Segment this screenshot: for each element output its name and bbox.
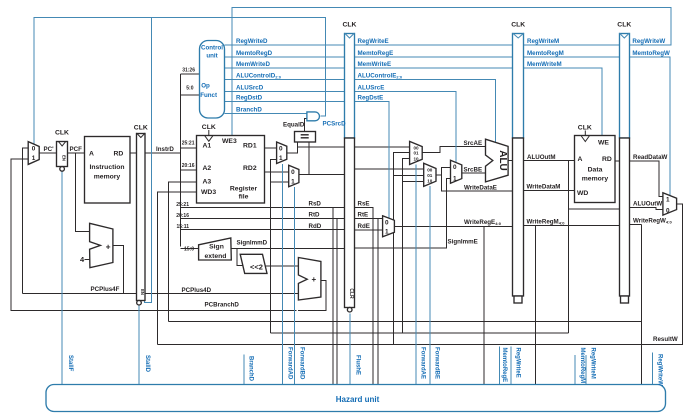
svg-text:RD1: RD1 (243, 143, 257, 150)
svg-text:<<2: <<2 (250, 262, 263, 271)
svg-text:MemtoRegD: MemtoRegD (236, 50, 273, 57)
svg-text:ForwardBE: ForwardBE (434, 347, 440, 379)
svg-text:CLK: CLK (343, 22, 357, 29)
svg-text:CLK: CLK (511, 22, 525, 29)
svg-text:memory: memory (582, 176, 609, 183)
svg-text:RsD: RsD (309, 201, 322, 208)
svg-text:10: 10 (413, 156, 419, 161)
svg-text:RD: RD (602, 156, 612, 163)
svg-text:1: 1 (385, 229, 389, 236)
svg-text:ReadDataW: ReadDataW (633, 154, 668, 161)
svg-text:Register: Register (230, 186, 258, 193)
svg-text:WD3: WD3 (201, 189, 216, 196)
svg-text:1: 1 (32, 155, 36, 162)
svg-text:MemWriteD: MemWriteD (236, 61, 270, 68)
svg-text:WriteRegE4:0: WriteRegE4:0 (464, 219, 502, 226)
svg-text:CLK: CLK (134, 125, 148, 132)
svg-text:0: 0 (385, 219, 389, 226)
svg-text:01: 01 (413, 151, 419, 156)
svg-text:EqualD: EqualD (283, 122, 305, 129)
svg-text:ALUOutM: ALUOutM (527, 154, 556, 161)
svg-text:WriteRegM4:0: WriteRegM4:0 (527, 219, 566, 226)
svg-text:Sign: Sign (209, 244, 224, 251)
svg-text:CLR: CLR (348, 288, 354, 299)
svg-text:1: 1 (291, 179, 295, 186)
svg-text:SrcBE: SrcBE (464, 167, 483, 174)
svg-text:RtE: RtE (358, 212, 369, 219)
svg-text:extend: extend (205, 253, 227, 260)
svg-text:+: + (106, 241, 111, 251)
svg-text:MemtoRegM: MemtoRegM (527, 50, 564, 57)
svg-text:Op: Op (201, 82, 210, 89)
svg-text:file: file (239, 194, 249, 201)
svg-text:A: A (89, 151, 94, 158)
svg-text:WE: WE (598, 140, 609, 147)
svg-text:RD: RD (114, 151, 124, 158)
svg-text:SignImmD: SignImmD (237, 239, 268, 246)
svg-text:A: A (578, 156, 583, 163)
svg-text:25:21: 25:21 (182, 141, 195, 147)
svg-text:0: 0 (279, 146, 283, 153)
svg-text:0: 0 (291, 169, 295, 176)
svg-text:FlushE: FlushE (355, 355, 361, 375)
svg-text:memory: memory (94, 174, 121, 181)
svg-text:ALUControlD2:0: ALUControlD2:0 (236, 73, 282, 80)
svg-text:SignImmE: SignImmE (448, 239, 478, 246)
svg-text:Control: Control (201, 45, 223, 52)
svg-text:RegWriteM: RegWriteM (527, 38, 559, 45)
svg-text:PCPlus4D: PCPlus4D (182, 287, 212, 294)
svg-text:15:11: 15:11 (176, 224, 189, 230)
svg-text:RegDstE: RegDstE (358, 95, 384, 102)
svg-text:0: 0 (32, 145, 36, 152)
svg-text:00: 00 (413, 145, 419, 150)
svg-text:ALUControlE2:0: ALUControlE2:0 (358, 73, 403, 80)
svg-text:A3: A3 (203, 179, 212, 186)
svg-text:RdD: RdD (309, 223, 322, 230)
svg-text:RegWriteD: RegWriteD (236, 38, 268, 45)
svg-text:RegWriteM: RegWriteM (590, 348, 596, 379)
svg-text:RegWriteW: RegWriteW (632, 38, 665, 45)
svg-text:WE3: WE3 (222, 138, 237, 145)
svg-text:+: + (312, 275, 317, 284)
svg-text:20:16: 20:16 (176, 213, 189, 219)
svg-text:0: 0 (666, 207, 670, 214)
svg-text:WriteDataE: WriteDataE (464, 185, 497, 192)
svg-text:25:21: 25:21 (176, 202, 189, 208)
svg-text:RegDstD: RegDstD (236, 95, 263, 102)
svg-text:5:0: 5:0 (186, 86, 193, 92)
svg-text:ForwardAE: ForwardAE (420, 347, 426, 379)
svg-text:0: 0 (453, 164, 457, 171)
svg-text:A2: A2 (203, 165, 212, 172)
svg-text:unit: unit (206, 53, 217, 60)
svg-text:CLK: CLK (617, 22, 631, 29)
svg-text:WD: WD (577, 190, 588, 197)
svg-text:ForwardAD: ForwardAD (287, 347, 293, 380)
svg-text:15:0: 15:0 (184, 247, 194, 253)
svg-text:BranchD: BranchD (248, 356, 254, 382)
svg-text:RegWriteW: RegWriteW (657, 354, 663, 386)
svg-text:ResultW: ResultW (653, 336, 678, 343)
svg-text:ALU: ALU (497, 150, 508, 171)
svg-text:Instruction: Instruction (89, 164, 124, 171)
svg-text:CLK: CLK (202, 124, 216, 131)
svg-text:MemtoRegE: MemtoRegE (358, 50, 394, 57)
svg-text:RegWriteE: RegWriteE (515, 348, 521, 378)
svg-text:RegWriteE: RegWriteE (358, 38, 389, 45)
svg-text:ALUSrcD: ALUSrcD (236, 85, 264, 92)
svg-text:1: 1 (279, 155, 283, 162)
svg-text:PCPlus4F: PCPlus4F (91, 286, 120, 293)
svg-text:MemtoRegM: MemtoRegM (579, 348, 585, 384)
svg-text:1: 1 (453, 175, 457, 182)
svg-text:MemWriteM: MemWriteM (527, 61, 562, 68)
svg-text:WriteDataM: WriteDataM (527, 184, 561, 191)
svg-text:StallD: StallD (144, 355, 150, 373)
svg-text:Funct: Funct (200, 92, 217, 99)
svg-text:WriteRegW4:0: WriteRegW4:0 (633, 218, 672, 225)
svg-text:StallF: StallF (67, 355, 73, 372)
svg-text:01: 01 (427, 173, 433, 178)
svg-text:RsE: RsE (358, 201, 370, 208)
svg-text:CLK: CLK (55, 130, 69, 137)
svg-text:InstrD: InstrD (156, 146, 174, 153)
svg-text:10: 10 (427, 179, 433, 184)
svg-text:MemtoRegW: MemtoRegW (632, 50, 670, 57)
svg-text:Data: Data (588, 167, 603, 174)
svg-text:ALUOutW: ALUOutW (633, 201, 662, 208)
svg-text:RtD: RtD (309, 212, 321, 219)
svg-text:PCF: PCF (70, 146, 83, 153)
svg-text:EN: EN (61, 155, 66, 161)
svg-text:Hazard unit: Hazard unit (336, 395, 380, 404)
svg-text:SrcAE: SrcAE (464, 140, 483, 147)
svg-text:1: 1 (666, 196, 670, 203)
svg-text:RdE: RdE (358, 223, 370, 230)
svg-text:ForwardBD: ForwardBD (299, 347, 305, 380)
svg-text:20:16: 20:16 (182, 163, 195, 169)
svg-text:PC': PC' (44, 146, 55, 153)
svg-text:PCSrcD: PCSrcD (323, 121, 347, 128)
svg-text:MemtoRegE: MemtoRegE (501, 348, 507, 383)
svg-text:00: 00 (427, 168, 433, 173)
svg-text:CLK: CLK (578, 125, 592, 132)
svg-text:BranchD: BranchD (236, 107, 262, 114)
svg-text:31:26: 31:26 (182, 68, 195, 74)
svg-text:A1: A1 (203, 143, 212, 150)
svg-text:ALUSrcE: ALUSrcE (358, 85, 385, 92)
svg-text:MemWriteE: MemWriteE (358, 61, 392, 68)
svg-text:PCBranchD: PCBranchD (205, 302, 240, 309)
svg-text:RD2: RD2 (243, 165, 257, 172)
svg-text:EN: EN (140, 289, 145, 295)
